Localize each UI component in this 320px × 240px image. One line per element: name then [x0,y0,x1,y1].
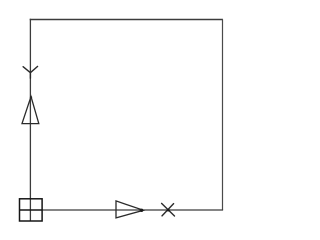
cross X center blob [167,209,170,212]
wire right [222,19,224,210]
amplifier tip blob [140,209,143,212]
box 2x2 grid [19,199,42,221]
wire left [29,19,31,221]
wire top [30,19,223,21]
wire bottom [42,209,223,211]
triangle apex blob [30,96,32,98]
arrowhead Y [23,66,37,78]
amplifier triangle right [116,201,144,218]
triangle up (left branch) [22,97,39,124]
cross X [162,203,175,216]
